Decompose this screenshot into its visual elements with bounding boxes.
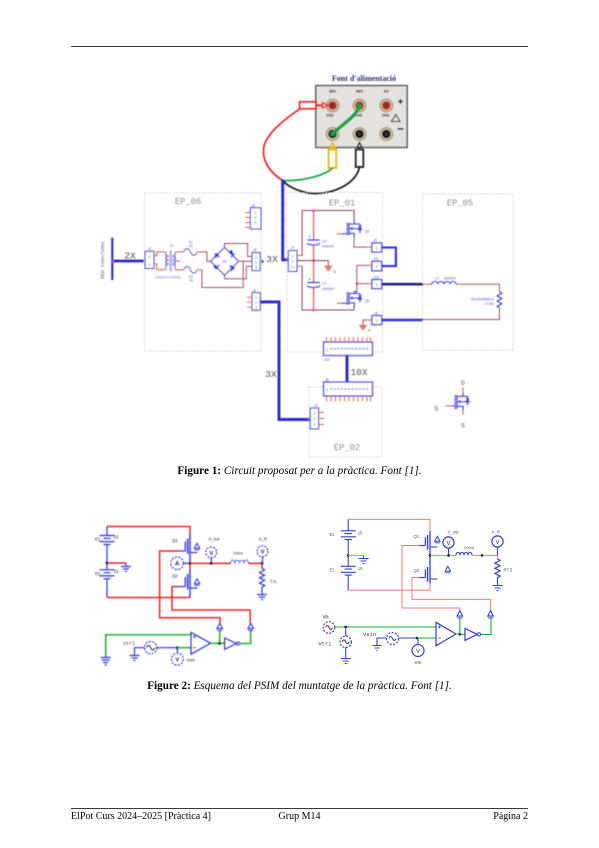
svg-text:2: 2	[254, 216, 256, 220]
jack CH2 -	[353, 128, 366, 141]
header rule	[71, 46, 528, 47]
svg-text:15: 15	[358, 566, 363, 571]
EP_02 block outline	[309, 387, 382, 457]
wire F2 under bridge to AC node	[202, 261, 243, 287]
gating block arrow 2	[248, 623, 254, 630]
svg-text:V_out: V_out	[448, 530, 460, 535]
top rail (right)	[348, 519, 430, 531]
jack CH1 +	[326, 99, 339, 112]
svg-text:E1: E1	[330, 532, 336, 537]
svg-text:A: A	[175, 562, 180, 568]
wire inductor to R	[249, 562, 264, 565]
svg-text:J2: J2	[147, 247, 152, 251]
long green wire (right)	[335, 626, 436, 629]
svg-text:n_out: n_out	[209, 537, 221, 542]
resistor R7.5 (right)	[495, 555, 513, 583]
voltmeter Vsin	[171, 648, 195, 666]
source Vtri (sine)	[135, 642, 157, 656]
source Vsin (right)	[377, 633, 399, 646]
output node dot	[189, 562, 192, 565]
connector J9	[372, 312, 382, 325]
svg-text:J1: J1	[252, 289, 257, 293]
inductor 200m (right)	[456, 545, 475, 555]
svg-text:1A: 1A	[189, 279, 194, 283]
svg-text:J5: J5	[372, 239, 377, 243]
inductor 200m	[231, 552, 249, 564]
svg-text:7.5: 7.5	[270, 579, 277, 584]
ground (Vtri right)	[341, 659, 351, 664]
svg-text:1: 1	[326, 348, 328, 352]
mosfet Q1 (PSIM)	[172, 534, 200, 563]
svg-text:V: V	[175, 658, 179, 664]
svg-text:J13: J13	[372, 275, 379, 279]
svg-text:30V: 30V	[356, 88, 363, 93]
svg-text:J2: J2	[313, 404, 318, 408]
resistor R1//R2//R6//R13	[471, 292, 501, 308]
svg-text:C7: C7	[322, 282, 327, 286]
label Vm source	[323, 615, 329, 621]
svg-text:Vsin: Vsin	[363, 632, 376, 638]
output bus J13 to EP_05	[382, 283, 423, 286]
resistor 7.5	[259, 563, 276, 591]
bridge + output wire to J4 pin1	[225, 244, 252, 257]
node dot mid batteries	[106, 562, 109, 565]
svg-text:10X: 10X	[350, 367, 367, 378]
10X bus J10 to EP_02	[346, 356, 349, 383]
svg-text:Vtri: Vtri	[319, 642, 332, 648]
mosfet Q2 (right)	[414, 555, 451, 583]
svg-text:3: 3	[254, 221, 256, 225]
+V rail wire	[302, 211, 354, 256]
connector J1	[247, 289, 260, 311]
svg-text:V: V	[447, 541, 451, 547]
svg-text:V: V	[416, 649, 420, 655]
FIGURE 1 SVG	[90, 62, 545, 462]
svg-text:200m: 200m	[464, 545, 475, 550]
svg-text:D: D	[461, 380, 465, 387]
wire NOT to gating 2	[240, 630, 251, 643]
label 10X	[350, 367, 367, 378]
svg-text:E2: E2	[95, 571, 101, 576]
wire L2 to R	[461, 284, 500, 292]
svg-text:EP_01: EP_01	[329, 199, 355, 209]
bottom rail	[107, 597, 190, 599]
label 2X	[124, 251, 136, 262]
3X bus J1 to EP_02	[260, 302, 310, 420]
wire inductor to R (right)	[472, 554, 498, 557]
wire NOT to gating 2 (right)	[481, 618, 491, 635]
NOT gate (right)	[465, 628, 481, 640]
capacitor C7	[307, 278, 335, 291]
svg-text:200m: 200m	[233, 552, 243, 556]
svg-text:G: G	[435, 406, 439, 413]
svg-text:15: 15	[114, 569, 119, 574]
diode bridge D2	[211, 247, 239, 275]
wire to ground mid	[107, 562, 126, 564]
svg-text:C2: C2	[322, 240, 327, 244]
EP_05 block outline	[423, 194, 514, 350]
jack CH2 +	[353, 99, 366, 112]
connector J3	[246, 204, 262, 229]
svg-text:1: 1	[255, 296, 257, 300]
connector J7 (EP_01 input)	[288, 246, 302, 271]
svg-text:0: 0	[334, 269, 337, 274]
svg-text:2X: 2X	[124, 251, 136, 262]
svg-text:R7.5: R7.5	[504, 568, 514, 573]
svg-text:Q2: Q2	[365, 299, 370, 303]
red segment between Q1 Q2	[189, 563, 191, 568]
svg-text:J8: J8	[324, 378, 329, 382]
ground 0 (EP_01 mid)	[325, 266, 337, 274]
svg-text:Q1: Q1	[365, 230, 370, 234]
output node dot (right)	[429, 554, 432, 557]
node dot mid (right)	[347, 554, 350, 557]
power supply title	[332, 74, 396, 83]
svg-text:6V: 6V	[384, 88, 389, 93]
svg-text:V: V	[261, 550, 265, 556]
caption figure 1	[0, 465, 599, 477]
green jumper wire CH2+ to CH1-	[330, 103, 362, 136]
svg-text:J4: J4	[252, 248, 257, 252]
-V rail wire	[302, 266, 354, 310]
fuse F1	[175, 241, 203, 256]
svg-text:RED 230V/50Hz: RED 230V/50Hz	[100, 241, 106, 279]
mosfet Q2 (PSIM)	[172, 569, 200, 598]
ammeter A	[171, 557, 189, 570]
svg-text:EP_05: EP_05	[447, 199, 473, 209]
svg-text:J10: J10	[323, 358, 330, 362]
node dot mid rail	[312, 259, 315, 262]
top rail	[107, 527, 190, 535]
ground (battery midpoint)	[121, 563, 131, 572]
wires J2 to transformer	[157, 252, 166, 270]
node dot bottom rail	[312, 309, 315, 312]
svg-text:R1/R2/R6/R13: R1/R2/R6/R13	[471, 297, 493, 301]
node dot top rail	[312, 209, 315, 212]
fuse F2	[175, 267, 202, 283]
label Vsin (right)	[363, 632, 376, 638]
black cable	[283, 167, 360, 193]
source Vtri (right)	[340, 627, 351, 659]
return bus J9 to EP_05	[382, 319, 423, 321]
connector J10 (EP_01 bottom header)	[323, 337, 373, 362]
midpoint node dot	[356, 282, 359, 285]
red cable	[263, 109, 300, 181]
wire R to return	[423, 308, 500, 320]
wire to ground mid (right)	[348, 554, 363, 556]
svg-text:1: 1	[326, 388, 328, 392]
FIGURE 2 SVG	[85, 515, 540, 675]
comparator	[191, 632, 211, 654]
mosfet Q1 (right)	[414, 531, 441, 555]
svg-text:Vsin: Vsin	[187, 658, 196, 663]
blue jumper J5 to J11	[382, 248, 396, 267]
svg-text:J7: J7	[290, 246, 295, 250]
svg-text:Q2: Q2	[172, 574, 178, 579]
ground (under R)	[257, 591, 267, 600]
ground (battery midpoint right)	[359, 555, 369, 563]
battery E2	[100, 563, 115, 598]
mosfet Q2	[337, 284, 370, 306]
ground 0 (J9)	[359, 325, 371, 332]
svg-text:V: V	[209, 551, 213, 557]
output wire	[190, 562, 231, 564]
label Vtri	[123, 641, 135, 647]
voltmeter Vm (right)	[412, 638, 424, 665]
red banana plug into CH1	[300, 102, 328, 109]
comparator (right)	[436, 622, 456, 646]
svg-text:E1: E1	[95, 537, 101, 542]
svg-text:1000uF: 1000uF	[322, 244, 335, 248]
label 3X (EP_02 input)	[265, 369, 277, 380]
svg-text:S: S	[461, 423, 465, 430]
Q2 gate wire	[172, 587, 250, 624]
inductor L2	[423, 277, 461, 285]
mosfet legend symbol	[435, 380, 470, 430]
battery E2 (right)	[341, 555, 356, 590]
green cable	[283, 168, 333, 181]
comparator output wire	[211, 642, 225, 645]
transformer T2	[156, 244, 182, 279]
svg-text:T2: T2	[170, 244, 174, 248]
svg-text:Q2: Q2	[414, 568, 420, 573]
svg-text:V: V	[496, 540, 500, 546]
svg-text:Vtri: Vtri	[123, 641, 135, 647]
bridge AC right wire to J4 pin2	[239, 260, 252, 262]
voltmeter n_out	[206, 537, 220, 565]
battery E1	[100, 527, 115, 564]
label 3X (EP_01 input)	[266, 254, 278, 265]
label Vtri (right)	[319, 642, 332, 648]
svg-text:1A: 1A	[189, 244, 194, 248]
long green wire to comparator +	[106, 635, 191, 658]
wire Vtri to comparator -	[157, 646, 191, 649]
EP_01 block outline	[287, 193, 383, 353]
svg-text:E2: E2	[330, 567, 336, 572]
svg-text:D2: D2	[223, 260, 227, 264]
connector J8 (EP_02 header)	[324, 378, 373, 402]
svg-text:Q1: Q1	[172, 538, 178, 543]
svg-text:0: 0	[368, 328, 371, 333]
connector J4	[252, 248, 265, 270]
NOT gate	[225, 638, 240, 649]
mosfet Q1	[337, 221, 370, 237]
bridge - output wire to J4 pin3	[225, 266, 252, 278]
jack CH3 +	[380, 99, 393, 112]
footer rule	[71, 808, 528, 809]
Q1 source wire to J5	[354, 237, 372, 248]
jack CH1 -	[326, 128, 339, 141]
midpoint wire to J13	[357, 283, 372, 285]
svg-text:15: 15	[114, 535, 119, 540]
wire F1 to bridge left corner	[203, 252, 211, 261]
footer text	[71, 811, 528, 822]
voltmeter n_R	[257, 537, 268, 564]
svg-text:n_R: n_R	[259, 537, 267, 542]
EP_06 block outline	[145, 193, 262, 351]
svg-text:CH1: CH1	[326, 114, 333, 118]
svg-text:3: 3	[255, 306, 257, 310]
white banana plug	[356, 143, 364, 168]
J9 wire to ground	[363, 320, 372, 325]
ground (under R right)	[493, 583, 503, 591]
svg-text:1: 1	[254, 211, 256, 215]
svg-text:CH3: CH3	[382, 114, 389, 118]
battery E1 (right)	[341, 519, 356, 555]
voltmeter V_out	[443, 530, 459, 557]
ground (green ref)	[101, 658, 111, 666]
capacitor C2	[307, 235, 335, 248]
capacitor branch wire	[313, 211, 315, 311]
svg-text:+: +	[398, 97, 403, 107]
gating block arrow 2 (right)	[488, 611, 494, 618]
gating block arrow 1 (right)	[457, 611, 463, 634]
Q2 gate wire (right)	[412, 578, 491, 611]
RED 230V/50Hz net label	[100, 241, 106, 279]
svg-text:EP_02: EP_02	[334, 443, 360, 453]
yellow banana plug	[329, 143, 337, 169]
caption figure 2	[0, 680, 599, 692]
Q1 gate wire	[160, 551, 220, 623]
mains stub wire	[111, 238, 144, 280]
connector J13	[372, 275, 382, 288]
svg-text:−: −	[397, 124, 403, 136]
svg-text:=7.5Ω: =7.5Ω	[484, 302, 494, 306]
transformer center tap stub	[175, 260, 180, 262]
svg-text:230/12+12/3VA: 230/12+12/3VA	[156, 275, 182, 279]
jack CH3 -	[380, 128, 393, 141]
svg-text:Vm: Vm	[323, 615, 329, 621]
svg-text:200mH: 200mH	[444, 277, 456, 281]
svg-text:J9: J9	[373, 312, 378, 316]
comparator output (right)	[456, 633, 465, 636]
source Vm	[323, 622, 335, 634]
svg-text:3X: 3X	[266, 254, 278, 265]
connector J2 (EP_06 input)	[145, 247, 157, 269]
svg-text:2: 2	[255, 301, 257, 305]
connector J2 (EP_02 input)	[310, 404, 324, 429]
connector J5	[372, 239, 382, 252]
svg-text:n_R: n_R	[492, 530, 500, 535]
3X bus from cables to EP_01 connector	[283, 180, 289, 260]
ground (Vtri)	[130, 656, 140, 661]
svg-text:J11: J11	[372, 257, 378, 261]
svg-text:15: 15	[358, 531, 363, 536]
output wire (right)	[430, 554, 456, 556]
ground (Vsin right)	[373, 646, 382, 651]
svg-text:Q1: Q1	[414, 534, 420, 539]
J11 wire to midpoint	[357, 265, 372, 283]
svg-text:EP_06: EP_06	[175, 197, 201, 207]
wire Vsin to comparator - (right)	[399, 637, 437, 640]
gating block arrow 1	[217, 623, 223, 643]
svg-text:L2: L2	[435, 277, 439, 281]
power supply panel	[316, 86, 408, 148]
mid rail wire to ground	[297, 261, 328, 266]
connector J11	[372, 257, 382, 271]
svg-text:Vm: Vm	[415, 660, 422, 665]
voltmeter n_R (right)	[492, 530, 503, 556]
Q1 gate wire (right)	[402, 546, 460, 611]
svg-text:30V: 30V	[329, 88, 336, 93]
svg-text:Font d'alimentació: Font d'alimentació	[332, 74, 396, 83]
svg-text:1000uF: 1000uF	[322, 287, 335, 291]
bottom rail (right)	[348, 584, 430, 591]
svg-text:3X: 3X	[265, 369, 277, 380]
